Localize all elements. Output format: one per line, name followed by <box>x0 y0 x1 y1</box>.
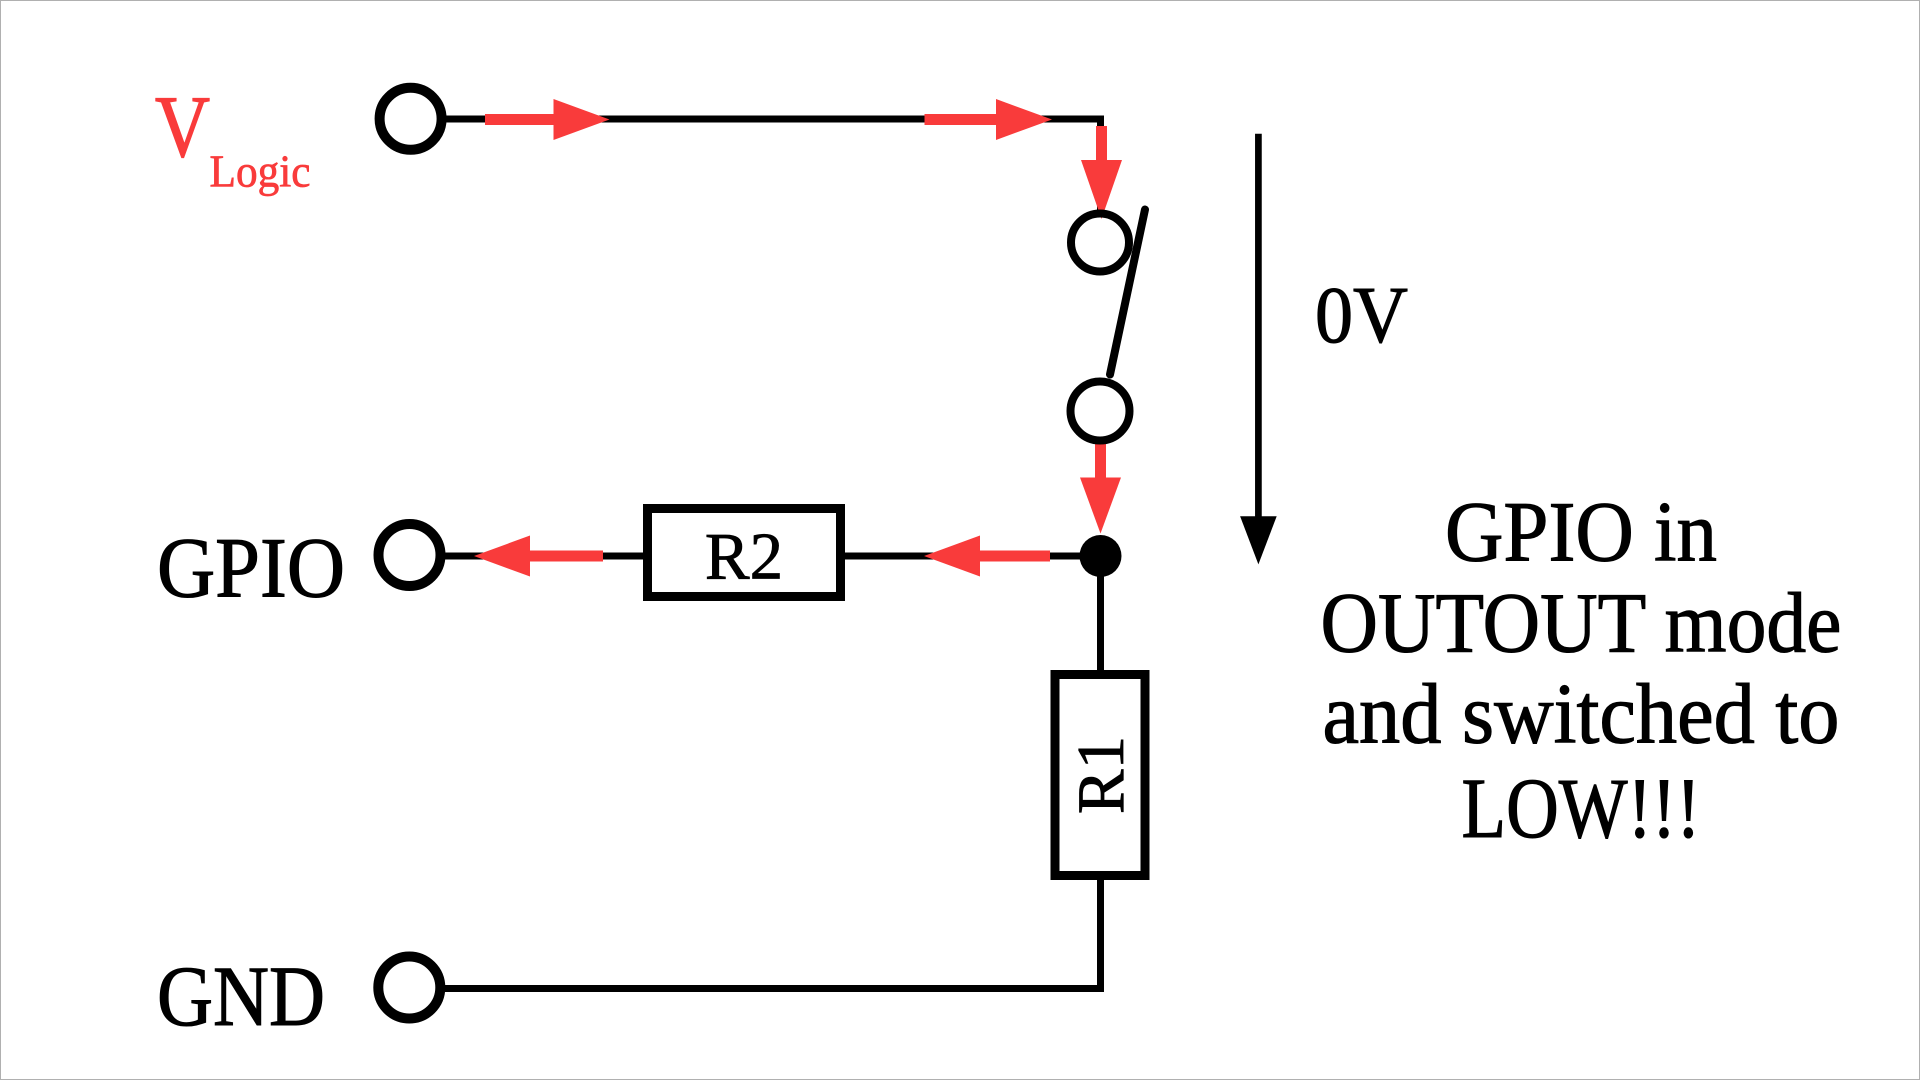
switch SW1 top contact circle <box>1071 214 1129 272</box>
current arrow I3 down into switch <box>1081 126 1122 219</box>
0V annotation arrow shaft <box>1255 134 1262 520</box>
0V annotation arrow head <box>1240 516 1277 564</box>
switch SW1 bottom contact circle <box>1071 382 1130 441</box>
terminal GND circle <box>378 957 440 1019</box>
terminal GPIO circle <box>379 524 441 586</box>
resistor R1 body <box>1055 675 1145 876</box>
wire middle branch GPIO to junction <box>444 553 1100 560</box>
current arrow I2 on top wire before corner <box>925 99 1053 140</box>
terminal V_Logic circle <box>380 88 442 150</box>
wire junction down to R1 <box>1097 556 1104 674</box>
switch SW1 blade <box>1110 210 1145 375</box>
current arrow I1 on top wire <box>485 99 610 140</box>
wire top horizontal from V terminal to corner, then down to switch <box>446 116 1104 213</box>
current arrow I5 from junction toward R2 (pointing left) <box>924 536 1050 577</box>
current arrow I6 from R2 toward GPIO (pointing left) <box>474 536 603 577</box>
current arrow I4 from switch down to junction <box>1080 441 1121 534</box>
wire R1 bottom down then left to GND terminal <box>444 876 1104 989</box>
junction node dot <box>1080 535 1122 577</box>
resistor R2 body <box>648 509 841 597</box>
